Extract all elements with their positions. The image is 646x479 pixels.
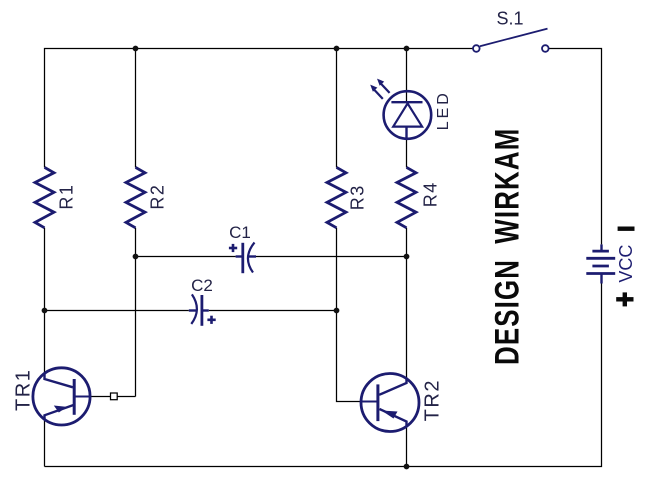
switch S.1 [473, 8, 549, 52]
svg-text:VCC: VCC [616, 245, 636, 283]
svg-text:C1: C1 [229, 223, 251, 242]
wire R2 bottom to TR1 base corner [135, 228, 137, 397]
wire LED to R4 [406, 139, 408, 167]
wire battery to bottom rail [45, 284, 602, 467]
title DESIGN WIRKAM [489, 128, 526, 365]
LED [370, 79, 452, 139]
node top R3 junction [334, 46, 340, 52]
svg-text:S.1: S.1 [496, 8, 523, 28]
wire R4 bottom to TR2 collector [406, 228, 408, 378]
battery plus sign [616, 292, 633, 306]
node top LED junction [404, 46, 410, 52]
wire TR2 emitter to bottom rail [406, 427, 408, 467]
svg-text:DESIGN WIRKAM: DESIGN WIRKAM [489, 128, 526, 365]
resistor R4 [397, 167, 441, 227]
capacitor C2 [189, 276, 216, 326]
node C2 left junction [42, 308, 48, 314]
svg-text:R3: R3 [348, 184, 368, 210]
battery minus sign [618, 227, 635, 231]
wire C2 net [45, 310, 337, 312]
transistor TR1 [13, 368, 91, 425]
resistor R2 [126, 167, 167, 227]
node C1 left junction [133, 254, 139, 260]
wire switch to right rail [549, 49, 602, 245]
node C1 right junction [404, 254, 410, 260]
svg-text:R4: R4 [421, 181, 441, 207]
resistor R3 [327, 167, 368, 227]
wire C1 net [136, 256, 407, 258]
wire R2 branch upper [135, 49, 137, 168]
node TR1 base terminal square [111, 393, 118, 400]
node bottom rail junction [404, 464, 410, 470]
wire LED branch upper [406, 49, 408, 103]
capacitor C1 [229, 223, 256, 273]
wire TR1 emitter to bottom rail [44, 419, 46, 467]
node C2 right junction [334, 308, 340, 314]
wire R3 branch upper [336, 49, 338, 168]
resistor R1 [35, 167, 76, 227]
wire R3 bottom to TR2 base [337, 228, 361, 402]
battery VCC [586, 244, 636, 283]
svg-text:R2: R2 [147, 184, 167, 210]
wire top rail [45, 49, 473, 168]
node top R2 junction [133, 46, 139, 52]
svg-text:LED: LED [435, 90, 452, 130]
wire TR1 base lead [90, 396, 135, 398]
svg-text:TR2: TR2 [422, 379, 444, 421]
transistor TR2 [361, 374, 444, 432]
svg-text:C2: C2 [191, 276, 213, 295]
svg-text:TR1: TR1 [13, 369, 35, 411]
wire R1 bottom to TR1 collector [44, 228, 46, 374]
svg-text:R1: R1 [56, 184, 76, 210]
